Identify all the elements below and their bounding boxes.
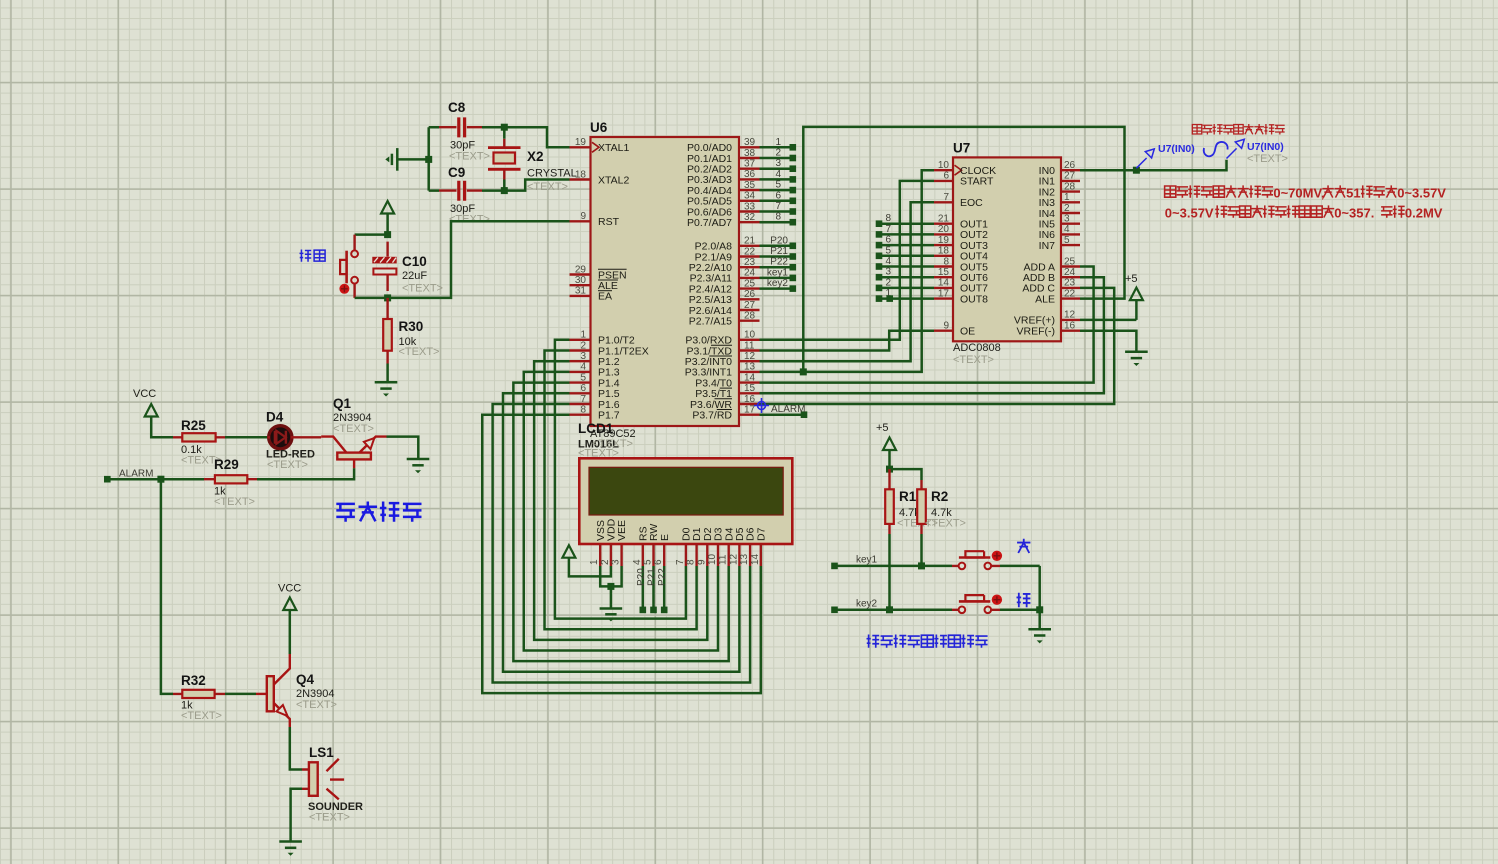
U7 pin 14 stub (934, 287, 953, 289)
wire P1.1 to LCD D1 (545, 351, 697, 630)
svg-text:key1: key1 (856, 554, 878, 565)
svg-text:19: 19 (938, 235, 950, 246)
svg-text:5: 5 (1064, 235, 1070, 246)
svg-text:10: 10 (744, 330, 756, 341)
svg-text:14: 14 (750, 553, 761, 565)
svg-text:U7: U7 (953, 141, 970, 156)
svg-text:19: 19 (575, 137, 587, 148)
wire OE to P3.1 (760, 331, 935, 351)
wire P0.3 net 4 (760, 178, 793, 181)
svg-text:VEE: VEE (616, 520, 628, 541)
svg-text:33: 33 (744, 201, 756, 212)
U6 pin 38 stub (739, 157, 760, 159)
svg-text:4: 4 (580, 362, 586, 373)
svg-text:<TEXT>: <TEXT> (925, 518, 966, 530)
U7 pin 7 stub (934, 201, 953, 203)
resistor R29 1k (204, 457, 257, 508)
node junction crystal bottom (501, 187, 508, 194)
wire P2.4 net key2 (760, 287, 793, 290)
resistor R25 0.1k (173, 418, 225, 467)
svg-text:+5: +5 (876, 422, 889, 434)
wire P1.5 to LCD D5 (503, 393, 739, 672)
U6 pin 18 stub (570, 178, 591, 180)
LCD1 pin 8 (D1) stub (695, 544, 697, 566)
wire key1 right down to ground (1038, 566, 1041, 629)
svg-text:3: 3 (1064, 214, 1070, 225)
svg-text:C8: C8 (448, 100, 466, 115)
svg-text:6: 6 (653, 559, 664, 565)
label red line1 (1165, 185, 1447, 200)
svg-text:11: 11 (718, 554, 729, 565)
wire crystal bottom lead to C9 net (503, 180, 506, 191)
wire OUT3 net 6 (879, 244, 934, 247)
svg-text:0~70MV,: 0~70MV, (1273, 186, 1324, 201)
svg-text:D4: D4 (266, 410, 284, 425)
svg-text:E: E (659, 534, 671, 541)
wire to LCD ground (610, 586, 613, 608)
ADC U7 ADC0808 body (953, 141, 1061, 367)
LCD1 pin 1 (VSS) stub (599, 544, 601, 566)
svg-text:11: 11 (744, 340, 755, 351)
svg-text:0.2MV: 0.2MV (1405, 206, 1443, 221)
LCD1 pin 9 (D2) stub (706, 544, 708, 566)
wire LCD E to net P22 (663, 566, 666, 610)
label 声光报警 (blue) (336, 502, 421, 522)
svg-text:0~357.: 0~357. (1334, 206, 1374, 221)
wire OUT4 net 5 (879, 255, 934, 258)
svg-text:7: 7 (580, 394, 586, 405)
svg-text:1: 1 (580, 330, 586, 341)
svg-text:<TEXT>: <TEXT> (296, 699, 337, 711)
LCD LCD1 LM016L body (578, 421, 792, 544)
svg-text:XTAL1: XTAL1 (598, 142, 629, 154)
U6 pin 3 stub (570, 360, 591, 362)
svg-text:3: 3 (580, 351, 586, 362)
svg-text:1: 1 (1064, 192, 1070, 203)
svg-text:P2.7/A15: P2.7/A15 (689, 316, 732, 328)
svg-text:12: 12 (728, 553, 739, 565)
svg-text:RST: RST (598, 216, 620, 228)
wire C8 right to XTAL1 (482, 127, 570, 147)
probe U7(IN0) (left) (1136, 149, 1154, 168)
U7 pin 8 stub (934, 265, 953, 267)
svg-text:key1: key1 (767, 267, 789, 278)
svg-text:6: 6 (943, 171, 949, 182)
svg-text:XTAL2: XTAL2 (598, 174, 629, 186)
crystal X2 (488, 139, 577, 193)
U7 pin 5 stub (1061, 244, 1080, 246)
svg-text:1: 1 (589, 559, 600, 565)
svg-text:2: 2 (885, 277, 891, 288)
wire Q1 base down to R29 row (257, 468, 354, 479)
U6 pin 34 stub (739, 200, 760, 202)
svg-text:12: 12 (1064, 310, 1076, 321)
U6 pin 11 stub (739, 349, 760, 351)
svg-text:2: 2 (775, 148, 781, 159)
svg-text:4: 4 (775, 169, 781, 180)
svg-text:IN7: IN7 (1039, 240, 1056, 252)
svg-text:16: 16 (744, 394, 756, 405)
svg-text:16: 16 (1064, 321, 1076, 332)
U7 pin 3 stub (1061, 222, 1080, 224)
ground VREF(-) (1125, 351, 1148, 354)
generator squiggle U7(IN0) (1204, 142, 1228, 156)
wire VREF(+) to +5 (1080, 319, 1136, 322)
svg-text:+5: +5 (1125, 273, 1138, 285)
power +5 arrow (VREF) (1130, 288, 1143, 301)
LCD1 pin 5 (RW) stub (652, 544, 654, 566)
svg-text:5: 5 (580, 372, 586, 383)
svg-text:7: 7 (943, 192, 949, 203)
svg-text:18: 18 (938, 246, 950, 257)
svg-text:<TEXT>: <TEXT> (333, 423, 374, 435)
U6 pin 23 stub (739, 266, 760, 268)
svg-text:VREF(-): VREF(-) (1017, 326, 1056, 338)
svg-text:P21: P21 (770, 246, 788, 257)
svg-text:<TEXT>: <TEXT> (449, 214, 490, 226)
svg-text:4: 4 (632, 559, 643, 565)
U6 pin 33 stub (739, 210, 760, 212)
svg-text:8: 8 (885, 213, 891, 224)
ground below R30 (375, 381, 398, 384)
svg-text:22: 22 (744, 246, 756, 257)
wire P2.1 net P21 (760, 255, 793, 258)
svg-text:30: 30 (575, 275, 587, 286)
node junction above C10 (384, 231, 391, 238)
U7 pin 1 stub (1061, 201, 1080, 203)
node junction R1/key2 (886, 606, 893, 613)
U7 pin 12 stub (1061, 319, 1080, 321)
svg-text:D7: D7 (755, 527, 767, 541)
U6 pin 8 stub (570, 414, 591, 416)
svg-text:<TEXT>: <TEXT> (578, 448, 619, 460)
svg-text:P20: P20 (770, 235, 788, 246)
U6 pin 25 stub (739, 287, 760, 289)
wire P0.7 net 8 (760, 221, 793, 224)
svg-text:1: 1 (775, 137, 781, 148)
U6 pin 19 stub (570, 146, 591, 148)
svg-text:C10: C10 (402, 254, 427, 269)
capacitor C8 (439, 100, 490, 163)
wire ADD A to P3.4 (760, 267, 1094, 383)
U6 pin 1 stub (570, 339, 591, 341)
svg-text:U7(IN0): U7(IN0) (1158, 143, 1195, 155)
wire CLOCK to INT1 net (760, 170, 935, 372)
svg-text:25: 25 (744, 278, 756, 289)
svg-text:4: 4 (885, 256, 891, 267)
svg-text:X2: X2 (527, 149, 544, 164)
U6 pin 31 stub (570, 295, 591, 297)
wire LCD RS to net P20 (642, 566, 645, 610)
svg-text:<TEXT>: <TEXT> (449, 151, 490, 163)
svg-text:5: 5 (643, 559, 654, 565)
svg-text:VCC: VCC (133, 388, 156, 400)
wire VCC to Q4 collector (289, 611, 292, 654)
svg-text:0~3.57V: 0~3.57V (1397, 186, 1446, 201)
svg-text:P3.7/RD: P3.7/RD (692, 410, 732, 422)
svg-text:2: 2 (580, 340, 586, 351)
U6 pin 24 stub (739, 277, 760, 279)
label 复位 (blue) (300, 250, 326, 262)
push button key2 (952, 595, 1002, 614)
resistor R1 4.7k (885, 469, 938, 534)
wire key2 row (835, 609, 953, 612)
svg-text:7: 7 (675, 559, 686, 565)
svg-text:R25: R25 (181, 418, 206, 433)
U7 pin 27 stub (1061, 180, 1080, 182)
U6 pin 39 stub (739, 146, 760, 148)
wire OUT8 net 1 (879, 297, 934, 300)
svg-text:28: 28 (1064, 181, 1076, 192)
U7 pin 18 stub (934, 255, 953, 257)
wire ALARM junction down to R32 (161, 479, 173, 694)
svg-text:21: 21 (744, 236, 756, 247)
U6 pin 6 stub (570, 392, 591, 394)
U6 pin 32 stub (739, 221, 760, 223)
svg-text:37: 37 (744, 159, 756, 170)
wire Q1 emitter to ground (387, 437, 419, 459)
power arrow (LCD VDD) (562, 545, 575, 558)
ground below LCD (600, 607, 623, 610)
wire IN0 to source (1080, 160, 1227, 171)
svg-text:START: START (960, 176, 994, 188)
LCD1 pin 11 (D4) stub (728, 544, 730, 566)
svg-text:3: 3 (775, 158, 781, 169)
U7 pin 19 stub (934, 244, 953, 246)
power VCC arrow (reset) (381, 201, 394, 214)
U7 pin 2 stub (1061, 212, 1080, 214)
svg-text:OUT8: OUT8 (960, 293, 988, 305)
U7 pin 22 stub (1061, 297, 1080, 299)
U7 pin 21 stub (934, 222, 953, 224)
svg-text:VCC: VCC (278, 583, 301, 595)
node origin marker (blue) (754, 398, 769, 413)
wire VREF(-) to ground (1080, 331, 1136, 352)
wire C8/C9 left vertical (429, 127, 439, 190)
wire reset row to RST (355, 221, 570, 298)
svg-text:26: 26 (744, 289, 756, 300)
wire key2 to right column (1000, 609, 1040, 612)
wire ADD C to P3.6 (760, 288, 1115, 404)
node extra junction OUT8 (886, 295, 893, 302)
svg-text:17: 17 (744, 405, 756, 416)
svg-text:20: 20 (938, 224, 950, 235)
svg-text:C9: C9 (448, 165, 465, 180)
label 减 (blue) (1017, 593, 1031, 608)
svg-text:9: 9 (696, 559, 707, 565)
wire P1.4 to LCD D4 (513, 383, 728, 662)
wire to R2 top (890, 469, 922, 480)
wire crystal top lead to C8 net (503, 127, 506, 139)
svg-text:21: 21 (938, 214, 950, 225)
svg-text:4: 4 (1064, 224, 1070, 235)
sounder LS1 (302, 745, 363, 824)
wire R1 down to key2 row (888, 534, 891, 610)
svg-text:8: 8 (943, 256, 949, 267)
svg-text:38: 38 (744, 148, 756, 159)
U6 pin 35 stub (739, 189, 760, 191)
wire P1.0 to LCD D0 (555, 340, 686, 619)
svg-text:39: 39 (744, 137, 756, 148)
svg-text:P22: P22 (657, 568, 668, 586)
wire VCC arrow to VDD (569, 559, 611, 577)
wire Q4 emitter down to LS1 (290, 727, 302, 770)
wire P2.3 net key1 (760, 277, 793, 280)
svg-text:29: 29 (575, 264, 587, 275)
svg-text:24: 24 (744, 268, 756, 279)
svg-text:23: 23 (744, 257, 756, 268)
resistor R30 10k (383, 298, 439, 364)
node junction ALARM column (157, 476, 164, 483)
svg-text:<TEXT>: <TEXT> (399, 346, 440, 358)
ground Q1 emitter (407, 458, 430, 461)
U6 pin 28 stub (739, 320, 760, 322)
svg-text:25: 25 (1064, 256, 1076, 267)
U6 pin 27 stub (739, 309, 760, 311)
U6 pin 2 stub (570, 349, 591, 351)
svg-text:17: 17 (938, 288, 950, 299)
U6 pin 37 stub (739, 167, 760, 169)
node junction key2/right column (1036, 606, 1043, 613)
U6 pin 21 stub (739, 245, 760, 247)
U7 pin 6 stub (934, 180, 953, 182)
svg-text:R2: R2 (931, 489, 948, 504)
wire P0.5 net 6 (760, 200, 793, 203)
wire P1.6 to LCD D6 (493, 404, 750, 682)
U6 pin 9 stub (570, 220, 591, 222)
wire P0.6 net 7 (760, 210, 793, 213)
wire P0.0 net 1 (760, 146, 793, 149)
node junction R1/R2 top (886, 466, 893, 473)
svg-text:8: 8 (686, 559, 697, 565)
svg-text:<TEXT>: <TEXT> (527, 181, 568, 193)
LCD1 pin 14 (D7) stub (760, 544, 762, 566)
svg-text:36: 36 (744, 169, 756, 180)
svg-text:9: 9 (580, 211, 586, 222)
U6 pin 4 stub (570, 371, 591, 373)
svg-text:2: 2 (600, 559, 611, 565)
wire OUT1 net 8 (879, 222, 934, 225)
LED D4 LED-RED (266, 410, 321, 472)
U6 pin 26 stub (739, 298, 760, 300)
LCD1 pin 4 (RS) stub (642, 544, 644, 566)
power VCC arrow (LED) (145, 404, 158, 417)
wire to left ground (398, 158, 429, 161)
wire P1.2 to LCD D2 (534, 361, 707, 640)
svg-text:U7(IN0): U7(IN0) (1247, 141, 1284, 153)
svg-text:ALARM: ALARM (119, 469, 153, 480)
svg-text:R1: R1 (899, 489, 917, 504)
svg-text:LS1: LS1 (309, 745, 334, 760)
svg-text:<TEXT>: <TEXT> (953, 354, 994, 366)
svg-text:28: 28 (744, 311, 756, 322)
wire OUT5 net 4 (879, 265, 934, 268)
svg-text:R32: R32 (181, 673, 206, 688)
node terminal P20 (640, 607, 647, 614)
wire OUT6 net 3 (879, 276, 934, 279)
svg-text:P0.7/AD7: P0.7/AD7 (687, 217, 732, 229)
wire OUT2 net 7 (879, 233, 934, 236)
U7 pin 24 stub (1061, 276, 1080, 278)
wire R32 to Q4 base (225, 693, 256, 696)
U6 pin 30 stub (570, 284, 591, 286)
wire R25 to D4 (225, 436, 267, 439)
capacitor C10 22uF electrolytic (372, 242, 443, 295)
resistor R2 4.7k (917, 480, 966, 534)
wire junction to reset button top (355, 233, 388, 236)
wire LCD RW to net P21 (652, 566, 655, 610)
svg-text:ADC0808: ADC0808 (953, 342, 1001, 354)
svg-text:ALARM: ALARM (771, 404, 805, 415)
U6 pin 22 stub (739, 255, 760, 257)
wire OUT7 net 2 (879, 287, 934, 290)
svg-text:CRYSTAL: CRYSTAL (527, 168, 577, 180)
transistor Q4 2N3904 (256, 654, 337, 727)
svg-text:10: 10 (938, 160, 950, 171)
U6 pin 36 stub (739, 178, 760, 180)
resistor R32 1k (173, 673, 225, 722)
wire key1 row (835, 565, 953, 568)
U6 pin 12 stub (739, 360, 760, 362)
svg-text:ALE: ALE (1035, 293, 1055, 305)
svg-text:P1.7: P1.7 (598, 410, 620, 422)
svg-text:<TEXT>: <TEXT> (181, 710, 222, 722)
node terminal P22 (661, 607, 668, 614)
svg-text:<TEXT>: <TEXT> (309, 812, 350, 824)
svg-text:Q4: Q4 (296, 672, 315, 687)
svg-text:P21: P21 (647, 568, 658, 586)
wire R2 down to key1 row (920, 534, 923, 566)
svg-text:51: 51 (1346, 186, 1360, 201)
svg-text:OE: OE (960, 326, 975, 338)
svg-text:34: 34 (744, 191, 756, 202)
LCD1 pin 3 (VEE) stub (620, 544, 622, 566)
U6 pin 16 stub (739, 403, 760, 405)
ground below LS1 (279, 840, 302, 843)
wire P2.2 net P22 (760, 266, 793, 269)
wire ADD B to P3.5 (760, 277, 1104, 393)
wire P0.1 net 2 (760, 157, 793, 160)
svg-text:13: 13 (744, 362, 756, 373)
svg-text:6: 6 (775, 190, 781, 201)
power VCC arrow (Q4) (283, 598, 296, 611)
svg-text:26: 26 (1064, 160, 1076, 171)
svg-text:3: 3 (885, 267, 891, 278)
wire START to P3.0 (760, 181, 935, 340)
U7 pin 10 stub (934, 169, 953, 171)
svg-text:key2: key2 (856, 598, 878, 609)
transistor Q1 2N3904 (321, 396, 386, 468)
svg-text:<TEXT>: <TEXT> (267, 459, 308, 471)
wire R30 to ground (386, 364, 389, 383)
svg-text:35: 35 (744, 180, 756, 191)
svg-text:<TEXT>: <TEXT> (402, 283, 443, 295)
svg-text:7: 7 (775, 201, 781, 212)
svg-text:27: 27 (1064, 171, 1076, 182)
svg-text:8: 8 (580, 405, 586, 416)
U7 pin 28 stub (1061, 190, 1080, 192)
node terminal key1 (831, 563, 838, 570)
U7 pin 26 stub (1061, 169, 1080, 171)
push button key1 (952, 551, 1002, 570)
U7 pin 15 stub (934, 276, 953, 278)
LCD1 pin 2 (VDD) stub (610, 544, 612, 566)
U6 pin 10 stub (739, 339, 760, 341)
wire U7 ALE to INT1 (top route) (803, 127, 1124, 372)
svg-text:2: 2 (1064, 203, 1070, 214)
U7 pin 4 stub (1061, 233, 1080, 235)
svg-text:15: 15 (938, 267, 950, 278)
